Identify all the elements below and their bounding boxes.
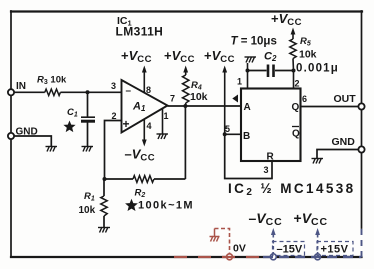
node R3/C1 junction — [86, 90, 90, 94]
svg-text:3: 3 — [264, 165, 269, 175]
ground (C1) — [82, 146, 94, 152]
IC2 MC14538 box — [241, 89, 301, 162]
terminal GND left — [8, 133, 14, 139]
ground (GND right) — [312, 158, 324, 164]
label star 100k~1M — [125, 199, 138, 211]
svg-text:B: B — [243, 131, 250, 142]
capacitor C2 — [248, 70, 267, 72]
+Vcc arrow (B/R) — [222, 66, 227, 73]
svg-text:0V: 0V — [233, 243, 246, 255]
resistor R4 — [185, 72, 187, 75]
red dashes on rail — [174, 256, 262, 258]
wire down to R pin — [225, 134, 272, 178]
wire pin 1 to ground — [162, 108, 164, 133]
frame bottom border (0V rail) — [11, 256, 362, 258]
svg-text:10k: 10k — [79, 205, 96, 216]
ground (R1) — [98, 227, 110, 233]
wire GND right — [317, 150, 359, 159]
svg-text:1: 1 — [164, 111, 169, 121]
red dashed wire to 0V terminal — [215, 229, 230, 254]
svg-text:6: 6 — [302, 94, 307, 104]
svg-text:–15V: –15V — [277, 244, 303, 256]
frame right border — [361, 11, 363, 228]
svg-text:LM311H: LM311H — [116, 25, 164, 39]
svg-text:1: 1 — [237, 77, 242, 87]
svg-text:A: A — [244, 102, 251, 113]
node R4/R2 junction — [183, 104, 187, 108]
ground (op-amp pin 1) — [157, 134, 169, 140]
op-amp A1 (LM311) triangle — [122, 80, 168, 133]
red 0V annotation: ground symbol — [210, 229, 220, 242]
trigger arrowhead at A input — [232, 95, 238, 103]
wire C1 branch — [87, 92, 89, 117]
svg-text:R3 10k: R3 10k — [37, 75, 67, 87]
wire pin 4 to -Vcc — [143, 119, 145, 144]
-15V terminal circle — [270, 254, 276, 260]
svg-text:0.001μ: 0.001μ — [296, 63, 339, 75]
svg-text:8: 8 — [146, 85, 151, 95]
wire R2 feedback — [105, 178, 134, 180]
node pin2/R1/R2 junction — [103, 177, 107, 181]
+Vcc arrow (R5) — [291, 28, 296, 35]
svg-text:4: 4 — [147, 121, 152, 131]
capacitor C1 — [81, 116, 95, 118]
wire pin 8 to +Vcc — [143, 68, 145, 93]
node B junction — [223, 132, 227, 136]
svg-text:OUT: OUT — [334, 93, 357, 105]
wire +Vcc to B and R pins of IC2 — [224, 68, 226, 134]
ground (GND left) — [46, 146, 58, 152]
resistor R2 — [133, 176, 154, 183]
pin 1 wire to C2/ground — [247, 63, 249, 89]
wire GND left to ground — [14, 136, 51, 146]
red 0V terminal circle — [227, 254, 233, 260]
ground (pin 1, pointing up) — [245, 57, 257, 63]
svg-text:T = 10μs: T = 10μs — [231, 36, 277, 48]
navy dashes on rail and right edge — [263, 256, 362, 258]
resistor R5 — [292, 34, 294, 39]
navy dashed arrow +15V — [317, 234, 319, 254]
navy dashed arrow -15V — [272, 234, 274, 254]
star mark C1 — [63, 121, 75, 133]
svg-text:R: R — [267, 152, 275, 163]
wire to pin 5 B — [225, 133, 241, 135]
terminal GND right — [358, 146, 364, 152]
svg-text:Q: Q — [292, 129, 300, 140]
frame top border — [11, 10, 362, 12]
svg-text:100k~1M: 100k~1M — [138, 200, 194, 212]
svg-text:+: + — [123, 117, 130, 131]
svg-text:–: – — [126, 86, 132, 97]
wire pin2 input — [105, 121, 122, 180]
+Vcc arrow (R4) — [183, 66, 188, 73]
+15V terminal circle — [315, 254, 321, 260]
frame left border — [10, 11, 12, 257]
svg-text:2: 2 — [112, 111, 117, 121]
svg-text:10k: 10k — [299, 49, 317, 61]
node pin1/C2 — [246, 69, 250, 73]
terminal IN — [8, 89, 14, 95]
svg-text:2: 2 — [295, 79, 300, 89]
resistor R1 — [103, 179, 105, 196]
terminal OUT — [358, 103, 364, 109]
svg-text:Q: Q — [292, 102, 300, 113]
svg-text:+15V: +15V — [321, 244, 349, 256]
svg-text:10k: 10k — [190, 91, 208, 103]
resistor R3 — [45, 89, 61, 95]
-Vcc arrow (pin 4) — [142, 140, 147, 147]
svg-text:7: 7 — [170, 94, 175, 104]
pin 2 wire — [293, 71, 295, 89]
svg-text:GND: GND — [332, 136, 356, 148]
wire comparator output to IC2 A input — [168, 105, 242, 107]
+Vcc arrow (pin 8) — [142, 66, 147, 73]
wire IN to comparator pin3 — [11, 91, 45, 93]
svg-text:3: 3 — [111, 81, 116, 91]
svg-text:IN: IN — [16, 81, 26, 92]
node C2/R5/pin2 — [292, 69, 296, 73]
svg-text:5: 5 — [225, 124, 230, 134]
wire Q output to OUT — [301, 106, 362, 108]
